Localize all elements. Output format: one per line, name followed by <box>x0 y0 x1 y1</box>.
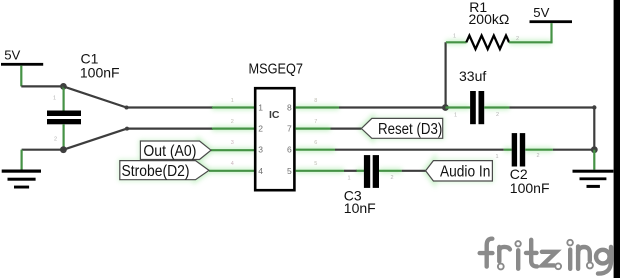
capacitor C3 <box>348 155 402 188</box>
pin 5 leg <box>296 170 345 172</box>
wire pin2 row horizontal <box>127 128 213 130</box>
net label Strobe(D2) <box>120 161 209 180</box>
net label Reset (D3) <box>361 118 442 138</box>
svg-text:8: 8 <box>287 103 292 113</box>
op-amp / IC U1 MSGEQ7 body <box>255 88 294 190</box>
wire pin6 to C2 <box>335 149 504 151</box>
net label Audio In <box>426 161 493 181</box>
svg-text:1: 1 <box>348 176 351 182</box>
label R1 value <box>469 0 510 27</box>
pin 1 leg <box>212 106 255 108</box>
svg-text:3: 3 <box>231 140 234 146</box>
capacitor C1 <box>47 86 81 149</box>
svg-text:33uf: 33uf <box>459 68 486 84</box>
wire pin5 to C3 <box>344 170 357 172</box>
wire 5V to node A <box>21 85 63 87</box>
wire 33uf to corner <box>509 106 594 108</box>
capacitor 33uf <box>445 91 509 124</box>
svg-text:MSGEQ7: MSGEQ7 <box>249 62 304 78</box>
svg-text:5V: 5V <box>533 5 549 20</box>
svg-text:1: 1 <box>454 112 457 118</box>
pin 4 leg <box>209 170 255 172</box>
label C3 value <box>344 188 376 216</box>
svg-text:1: 1 <box>496 154 499 160</box>
svg-text:6: 6 <box>287 145 292 155</box>
junction node B (C1 bottom / ground) <box>60 146 67 153</box>
svg-text:4: 4 <box>258 166 263 176</box>
svg-text:100nF: 100nF <box>80 65 120 81</box>
black border bar (right edge) <box>614 0 620 278</box>
wire C3 to Audio In label <box>402 170 426 172</box>
junction node A <box>60 83 67 90</box>
svg-text:6: 6 <box>314 140 317 146</box>
svg-text:2: 2 <box>496 112 499 118</box>
junction node C <box>442 104 449 111</box>
wire C2 to node D <box>553 149 594 151</box>
svg-text:5V: 5V <box>4 47 20 62</box>
svg-text:5: 5 <box>287 166 292 176</box>
net label Out (A0) <box>140 141 211 160</box>
svg-text:2: 2 <box>537 153 540 159</box>
bendpoint <box>125 106 129 110</box>
power symbol 5V (left) <box>1 47 43 86</box>
svg-text:2: 2 <box>54 137 57 143</box>
capacitor C2 <box>496 133 553 166</box>
fritzing watermark logo <box>480 239 611 274</box>
wire corner down to node D <box>593 108 595 150</box>
svg-text:1: 1 <box>258 103 263 113</box>
svg-text:1: 1 <box>53 96 56 102</box>
bendpoint corner <box>592 105 596 109</box>
pin 7 leg <box>296 128 331 130</box>
pin 6 leg <box>296 149 336 151</box>
svg-text:4: 4 <box>231 161 234 167</box>
wire pin7 to Reset label <box>331 128 362 130</box>
svg-text:200kΩ: 200kΩ <box>469 11 510 27</box>
svg-text:1: 1 <box>231 98 234 104</box>
svg-text:Audio In: Audio In <box>440 164 490 181</box>
power symbol 5V (right) <box>530 5 573 44</box>
svg-text:3: 3 <box>258 145 263 155</box>
svg-text:8: 8 <box>314 98 317 104</box>
pin 8 leg <box>296 106 340 108</box>
ground (right) <box>573 150 614 188</box>
svg-text:1: 1 <box>453 34 456 40</box>
svg-text:Out (A0): Out (A0) <box>143 143 196 160</box>
wire node C up to R1 <box>445 42 447 107</box>
label C1 value <box>80 51 120 81</box>
pin 2 leg <box>212 128 255 130</box>
wire node A diagonal to pin1 row <box>63 86 126 107</box>
ground (left) <box>2 150 41 189</box>
glow highlight layer <box>120 42 553 181</box>
svg-text:2: 2 <box>258 124 263 134</box>
wire pin1 row horizontal <box>127 106 214 108</box>
svg-text:IC: IC <box>269 109 280 121</box>
pin 3 leg <box>211 149 255 151</box>
label C2 value <box>510 166 550 196</box>
svg-text:5: 5 <box>314 161 317 167</box>
svg-text:7: 7 <box>287 124 292 134</box>
svg-text:2: 2 <box>231 119 234 125</box>
svg-text:100nF: 100nF <box>510 180 550 196</box>
svg-text:Strobe(D2): Strobe(D2) <box>122 163 190 180</box>
bendpoint <box>125 127 129 131</box>
wire pin8 to node C <box>339 106 445 108</box>
wire node B diagonal to pin2 row <box>63 129 127 150</box>
svg-text:7: 7 <box>314 119 317 125</box>
junction node D <box>591 146 598 153</box>
svg-text:Reset (D3): Reset (D3) <box>378 121 442 138</box>
svg-text:2: 2 <box>516 36 519 42</box>
svg-text:2: 2 <box>391 175 394 181</box>
resistor R1 <box>446 34 552 50</box>
svg-text:10nF: 10nF <box>344 200 376 216</box>
wire node B to ground <box>22 149 64 151</box>
